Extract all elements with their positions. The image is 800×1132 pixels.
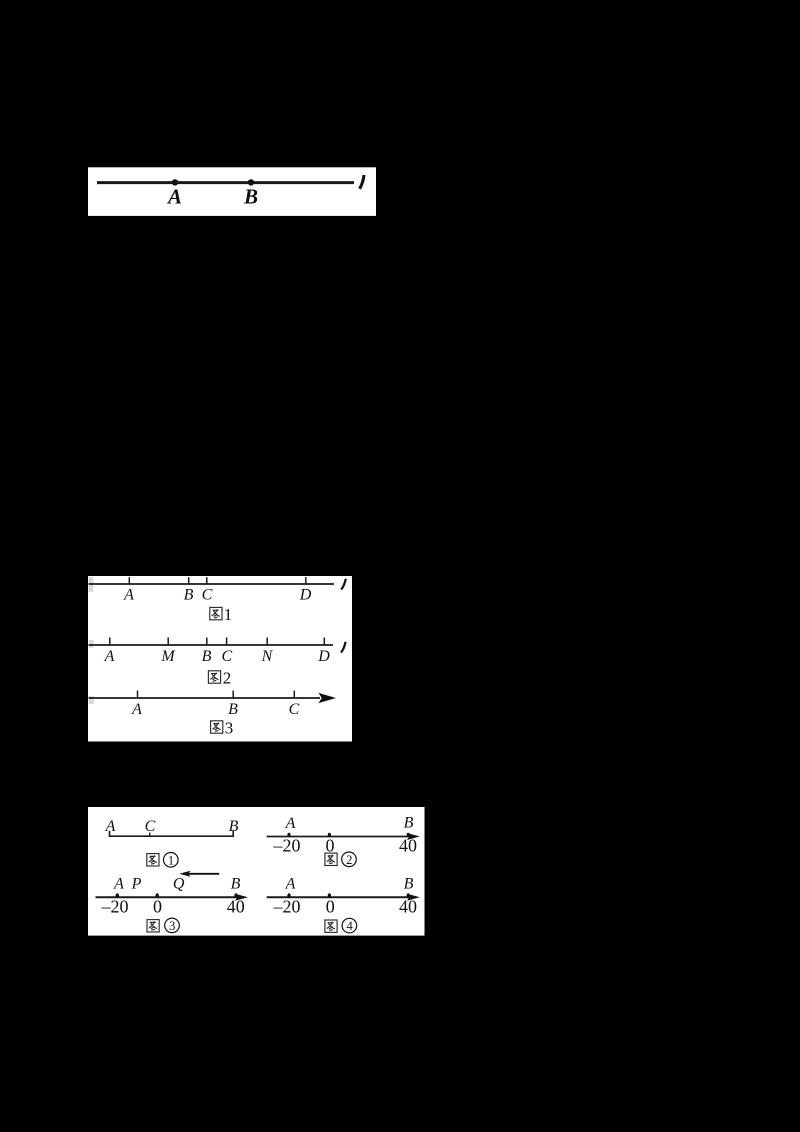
fig3 number line with arrow [89, 697, 321, 699]
line l (panel 1) [97, 181, 354, 184]
svg-text:N: N [261, 648, 274, 665]
fig1 tick A [128, 577, 130, 584]
fig3 tick A [137, 691, 139, 699]
fig2 tick N [266, 638, 268, 646]
svg-text:1: 1 [224, 605, 233, 624]
svg-text:B: B [202, 648, 212, 665]
white panel 3 [88, 807, 425, 936]
svg-text:Q: Q [173, 876, 185, 893]
svg-text:–20: –20 [101, 897, 129, 917]
numline2 dot 0 [328, 833, 331, 837]
svg-text:M: M [160, 648, 176, 665]
caption fig1 [210, 607, 222, 619]
white panel 1 [88, 167, 376, 216]
svg-text:C: C [289, 701, 300, 718]
caption fig3 [211, 721, 223, 733]
svg-text:1: 1 [168, 853, 174, 867]
caption circled 3 [147, 920, 159, 932]
fig2 label l [341, 642, 346, 653]
fig2 tick C [226, 638, 228, 646]
fig1 label l [341, 579, 346, 590]
svg-text:A: A [166, 185, 182, 209]
svg-text:0: 0 [326, 836, 335, 856]
svg-text:40: 40 [399, 896, 417, 916]
svg-text:2: 2 [346, 853, 352, 867]
fig3 gray nub [89, 696, 94, 704]
fig3 tick C [293, 691, 295, 699]
svg-text:0: 0 [153, 897, 162, 917]
numline2 line with arrow [267, 836, 414, 838]
numline4 dot 0 [328, 893, 331, 898]
svg-text:A: A [104, 648, 115, 665]
seg1 tick C [149, 833, 151, 837]
caption circled 1 [147, 854, 159, 866]
fig2 tick A [109, 638, 111, 646]
fig2 tick D [323, 638, 325, 646]
svg-text:2: 2 [223, 669, 232, 688]
svg-text:B: B [231, 876, 241, 893]
svg-text:0: 0 [326, 896, 335, 916]
numline2 dot -20 [287, 833, 290, 837]
svg-text:B: B [404, 876, 414, 893]
svg-text:D: D [299, 587, 312, 604]
fig2 line l [89, 644, 334, 646]
numline3 dot 40 [234, 893, 237, 898]
fig1 tick D [305, 577, 307, 584]
numline4 dot -20 [287, 893, 290, 898]
svg-text:P: P [131, 876, 142, 893]
fig1 tick B [188, 577, 190, 584]
point B dot [248, 179, 254, 185]
svg-text:B: B [404, 815, 414, 832]
numline3 dot 0 [156, 893, 159, 898]
caption fig2 [208, 671, 220, 683]
white panel 2 [88, 576, 352, 742]
svg-text:B: B [243, 185, 258, 209]
numline3 left arrow above Q [186, 873, 219, 875]
fig2 tick M [167, 638, 169, 646]
numline2 dot 40 [407, 833, 410, 837]
fig1 gray nub [89, 577, 94, 592]
seg1 bracket segment AB [110, 831, 234, 837]
svg-text:40: 40 [399, 836, 417, 856]
caption circled 2 [325, 853, 337, 865]
svg-text:40: 40 [227, 897, 245, 917]
svg-text:–20: –20 [273, 836, 301, 856]
svg-text:A: A [123, 587, 134, 604]
svg-text:A: A [131, 701, 142, 718]
numline3 line with arrow [96, 896, 243, 898]
numline3 dot -20 [116, 893, 119, 898]
svg-text:D: D [317, 648, 330, 665]
fig1 tick C [206, 577, 208, 584]
label l [360, 175, 364, 189]
svg-text:C: C [221, 648, 232, 665]
point A dot [172, 179, 178, 185]
svg-text:–20: –20 [273, 896, 301, 916]
svg-text:B: B [184, 587, 194, 604]
svg-text:C: C [202, 587, 213, 604]
fig2 gray nub [89, 640, 94, 648]
svg-text:3: 3 [225, 719, 234, 738]
svg-text:4: 4 [346, 919, 353, 933]
svg-text:C: C [145, 818, 156, 835]
numline4 line with arrow [267, 896, 414, 898]
fig2 tick B [206, 638, 208, 646]
fig1 line l [89, 583, 335, 585]
svg-text:A: A [285, 876, 296, 893]
svg-text:A: A [285, 815, 296, 832]
fig3 tick B [232, 691, 234, 699]
svg-text:B: B [228, 701, 238, 718]
numline4 dot 40 [407, 893, 410, 898]
svg-text:A: A [113, 876, 124, 893]
svg-text:3: 3 [169, 919, 175, 933]
caption circled 4 [325, 920, 337, 932]
